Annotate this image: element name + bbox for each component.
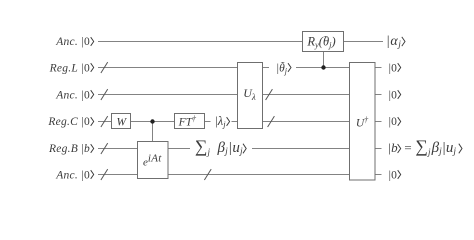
svg-text:Anc. |0: Anc. |0 [55, 170, 90, 182]
svg-text:Reg.C |0: Reg.C |0 [47, 116, 90, 128]
svg-text:|0: |0 [388, 63, 397, 75]
svg-text:W: W [117, 116, 128, 128]
svg-text:|0: |0 [388, 116, 397, 128]
svg-text:|b: |b [388, 140, 399, 155]
svg-text:|0: |0 [388, 89, 397, 101]
svg-text:Reg.L |0: Reg.L |0 [49, 63, 90, 75]
svg-text:βj|uj: βj|uj [217, 140, 244, 157]
svg-text:= ∑j βj|uj: = ∑j βj|uj [404, 136, 457, 157]
svg-text:Reg.B |b: Reg.B |b [48, 143, 90, 155]
svg-text:Ry(θj): Ry(θj) [306, 35, 335, 50]
svg-text:Anc. |0: Anc. |0 [55, 89, 90, 101]
svg-text:Anc. |0: Anc. |0 [55, 36, 90, 48]
svg-text:|0: |0 [388, 170, 397, 182]
